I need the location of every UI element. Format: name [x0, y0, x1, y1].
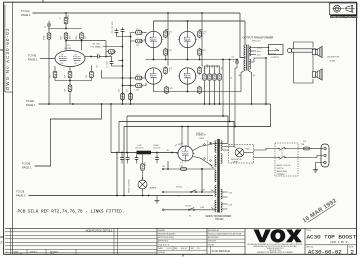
wire down to pot: [105, 41, 107, 57]
lamp LP2 pilot amber: [138, 180, 147, 189]
svg-text:DWG No AC30-60-02: DWG No AC30-60-02: [5, 27, 10, 90]
svg-text:AC30-60-02: AC30-60-02: [308, 248, 342, 255]
wire secondary to jack tip: [256, 47, 269, 49]
svg-text:TO EE: TO EE: [26, 99, 34, 103]
mains transformer right windings: [221, 141, 222, 151]
wire vertical A: [122, 34, 124, 105]
wire inlet earth to ground: [316, 163, 324, 167]
wire R3 to V1 anode: [65, 40, 67, 50]
svg-text:C7 .022: C7 .022: [107, 61, 109, 67]
terminal circles mains rows: [162, 168, 164, 170]
svg-text:CERAMIC: CERAMIC: [277, 173, 286, 176]
mains transformer left windings: [215, 141, 217, 153]
mains inlet connector: [321, 144, 329, 167]
svg-text:DRAWN: DRAWN: [158, 229, 166, 232]
valve V6 EL84: [178, 68, 197, 84]
resistor R22 bias: [218, 73, 222, 81]
svg-text:1W: 1W: [85, 36, 87, 39]
speaker LS1 Celestion: [312, 46, 322, 57]
speaker LS2 Celestion: [312, 69, 322, 80]
svg-text:PAGE 1: PAGE 1: [28, 57, 38, 61]
mains transformer T2 core: [217, 139, 220, 213]
resistor R19 bias: [203, 73, 207, 81]
svg-text:1K5: 1K5: [212, 65, 214, 68]
wire GZ34 heater feeds: [181, 127, 183, 148]
svg-text:TO GG: TO GG: [21, 9, 30, 13]
wire plate bus top pair: [154, 21, 246, 31]
svg-text:2: 2: [351, 249, 355, 256]
third angle projection box: [330, 3, 358, 15]
svg-text:SCALE N.T.S.: SCALE N.T.S.: [158, 243, 170, 246]
svg-text:THIRD ANGLE PROJECTION: THIRD ANGLE PROJECTION: [331, 15, 357, 18]
wire jack sleeve return to bus: [265, 58, 267, 104]
resistor R18 screen lower: [198, 66, 202, 74]
wire lower pair plates: [154, 84, 242, 91]
svg-text:VOL: VOL: [97, 65, 99, 68]
svg-text:5.5.92: 5.5.92: [167, 248, 172, 250]
selector arrowheads: [211, 167, 214, 209]
svg-text:1K5: 1K5: [136, 89, 139, 91]
svg-text:OUTPUT TRANSFORMER: OUTPUT TRANSFORMER: [243, 35, 274, 39]
resistor R9 on vertical A: [121, 92, 125, 100]
resistor R20 bias: [208, 73, 212, 81]
wire anode top link: [48, 29, 50, 32]
capacitor C32 electrolytic: [235, 59, 239, 65]
wire drop x223 to nested feed 1: [222, 60, 224, 117]
svg-text:AC30 TOP BOOST: AC30 TOP BOOST: [307, 233, 357, 240]
svg-text:DATE: DATE: [158, 247, 164, 250]
border tick bottom centre: [182, 254, 184, 256]
resistor R25 cathode lower: [165, 86, 169, 94]
border tick top: [42, 0, 44, 2]
mains toggle switch dashed box: [275, 143, 298, 176]
wire TO GG bus: [33, 12, 241, 14]
ground stub on heater wire: [156, 196, 158, 201]
wire y46 link: [103, 46, 123, 48]
valve V1 ECC83 preamp: [55, 51, 85, 67]
svg-text:TO CB: TO CB: [16, 189, 24, 193]
ground earth symbol: [313, 167, 318, 173]
wire F1 to switch row link: [201, 169, 203, 192]
resistor R24 cathode top b: [198, 48, 202, 56]
svg-text:G12M: G12M: [329, 60, 335, 62]
wire standby feed 1: [127, 116, 228, 144]
wire bus corner down right: [270, 104, 272, 127]
svg-text:CELESTION: CELESTION: [327, 57, 340, 59]
wire drop x235 to heater feed: [234, 68, 236, 127]
wire bias drops to bus: [204, 81, 206, 104]
svg-text:10-8-92: 10-8-92: [181, 248, 187, 250]
svg-text:MODIFICATION DETAILS: MODIFICATION DETAILS: [86, 229, 113, 232]
wire vertical B: [130, 41, 132, 104]
svg-text:1K5: 1K5: [136, 45, 139, 47]
title block outline: [5, 227, 357, 229]
svg-text:SWITCH: SWITCH: [277, 168, 285, 170]
title cell: [304, 228, 306, 254]
svg-text:820: 820: [65, 75, 67, 78]
wire standby feeds: [213, 143, 228, 145]
resistor R16 screen: [198, 30, 202, 38]
modification table verticals: [10, 228, 12, 254]
svg-text:6K8: 6K8: [222, 67, 224, 70]
wire neutral through box: [285, 157, 317, 159]
projection symbol circle: [334, 5, 341, 12]
svg-text:ECC83: ECC83: [65, 48, 73, 50]
resistor R21 bias: [213, 73, 217, 81]
svg-text:DESIGN RELEASED: DESIGN RELEASED: [158, 233, 176, 236]
wire OT primary top from plates: [244, 21, 246, 45]
svg-text:1W: 1W: [70, 36, 72, 39]
svg-text:705-002: 705-002: [215, 219, 224, 221]
svg-text:ISSUE 2: ISSUE 2: [30, 251, 37, 253]
wire V1 cathode drops: [54, 66, 56, 70]
svg-text:MAINS TRANSFORMER: MAINS TRANSFORMER: [206, 215, 232, 218]
potentiometer VR1 volume: [107, 50, 116, 54]
fuse F1: [181, 168, 187, 171]
valve V4 EL84: [178, 31, 197, 47]
svg-text:FL: FL: [189, 215, 191, 217]
svg-text:CH. VOL: CH. VOL: [92, 43, 101, 45]
resistor R4 100K: [80, 32, 84, 40]
wire drop x229 to nested feed 2: [229, 60, 231, 122]
wire feed1 drop to rail: [126, 116, 128, 153]
svg-text:16+16uF: 16+16uF: [153, 148, 161, 150]
svg-text:MAINS TOGGLE: MAINS TOGGLE: [277, 164, 291, 167]
svg-text:DRN: DRN: [14, 251, 19, 253]
third angle projection caption: [330, 15, 357, 18]
transformer T1 primary winding: [244, 45, 246, 57]
svg-text:C30/31: C30/31: [153, 145, 159, 147]
output jack J1: [269, 45, 284, 55]
wire cathode bus mid: [145, 59, 237, 61]
wire anode node: [48, 28, 82, 30]
svg-text:2: 2: [0, 241, 2, 245]
modification table rows: [5, 231, 157, 233]
svg-text:C32: C32: [231, 57, 234, 59]
resistor R5 cathode: [53, 70, 57, 78]
VOX logo cell: [244, 228, 246, 254]
border tick left: [0, 49, 4, 51]
svg-text:TITLE: TITLE: [306, 230, 312, 232]
resistor R11 grid top pair: [134, 31, 143, 35]
svg-text:C2: C2: [45, 26, 47, 28]
svg-text:LAMP: LAMP: [233, 161, 239, 164]
svg-text:470K: 470K: [44, 35, 46, 40]
switch linkage dashed: [281, 149, 283, 158]
wire C7 to vertical A: [112, 65, 123, 68]
switch contacts L pole: [278, 148, 279, 149]
resistor R8: [68, 84, 72, 92]
wire TO DB link: [35, 104, 102, 166]
svg-text:L-BN: L-BN: [201, 189, 206, 191]
wire screen drops: [167, 13, 169, 66]
wire neutral from transformer to box: [254, 157, 280, 159]
resistor R17 screen lower: [164, 66, 168, 74]
resistor R1 220K: [64, 16, 68, 24]
resistor R15 screen: [164, 30, 168, 38]
VOX logo: [254, 229, 302, 242]
svg-text:MAINS VOLTAGE: MAINS VOLTAGE: [128, 179, 131, 193]
valve V3 EL84: [144, 31, 163, 47]
design column: [206, 228, 208, 254]
svg-text:C16 .047 400V: C16 .047 400V: [112, 20, 114, 33]
svg-text:INDICATOR: INDICATOR: [231, 158, 242, 161]
resistor R27 pilot lamp feed: [142, 152, 144, 154]
capacitor C1: [47, 22, 51, 28]
DWG number side box: [4, 5, 6, 93]
svg-text:(A): (A): [239, 74, 242, 77]
indicator lamp dashed enclosure: [229, 145, 254, 164]
received date stamp: [302, 198, 338, 224]
wire transformer to lamp box: [223, 146, 236, 148]
wire switch to fuse F3: [285, 148, 304, 150]
lamp LP1 red indicator: [235, 148, 244, 157]
wire grid supply drop: [65, 13, 67, 29]
svg-text:APPROVED: APPROVED: [158, 240, 169, 243]
svg-text:PAGE 1: PAGE 1: [16, 193, 26, 197]
wire OT primary bottom from lower plates: [241, 70, 245, 92]
wire cathode join: [55, 79, 92, 81]
svg-text:45: 45: [230, 78, 232, 80]
wire bias top link: [205, 65, 220, 67]
wire bus drop x111: [110, 104, 112, 153]
svg-text:(AMER REF): (AMER REF): [277, 170, 288, 173]
svg-text:PAGE 1: PAGE 1: [26, 103, 36, 107]
approval column: [157, 227, 207, 229]
projection symbol cone: [346, 5, 353, 12]
transformer T1 secondary winding: [249, 46, 250, 56]
wire y78 feed: [102, 70, 135, 78]
transformer T1 core: [246, 45, 248, 71]
resistor R2 470K: [47, 32, 51, 40]
choke CH1: [137, 151, 152, 155]
svg-text:1K5: 1K5: [50, 75, 52, 78]
svg-text:TRN-xx13: TRN-xx13: [252, 41, 262, 43]
switch contacts N pole: [278, 157, 279, 158]
junction dots on HT bus: [48, 103, 50, 105]
svg-text:PAGE 1: PAGE 1: [22, 165, 32, 169]
wire 470K chain to bus: [48, 40, 50, 104]
capacitor C11 on vertical A: [121, 28, 125, 34]
speaker cabinet outline: [294, 42, 314, 49]
svg-text:DESIGNED BY: DESIGNED BY: [208, 230, 220, 232]
wire speaker series link: [312, 56, 314, 72]
svg-text:POL MASK.: POL MASK.: [91, 46, 103, 49]
resistor R3 100K: [64, 32, 68, 40]
wire TO EE main HT bus: [39, 103, 271, 105]
svg-text:REVISED: REVISED: [50, 251, 59, 253]
wire standby feed 2: [119, 122, 234, 147]
svg-text:L-BN: L-BN: [200, 207, 205, 209]
junction dots on GG bus: [65, 12, 67, 14]
wire heater drop x117: [116, 153, 118, 196]
svg-text:TE-2A: TE-2A: [176, 186, 182, 189]
wire R4 to V1 anode b: [81, 40, 83, 50]
svg-text:4ohm: 4ohm: [257, 55, 262, 57]
wire vol out to vertical A: [118, 60, 123, 62]
svg-text:SIZE A3: SIZE A3: [158, 251, 165, 254]
svg-text:APPROVED (ENG): APPROVED (ENG): [158, 236, 174, 239]
wire OT centre tap from GG bus: [240, 13, 245, 58]
svg-text:PCB SILK REF RT2,74,76,78 - LI: PCB SILK REF RT2,74,76,78 - LINKS FITTED…: [18, 210, 125, 215]
resistor R6 cathode: [68, 70, 72, 78]
svg-text:(B): (B): [253, 75, 256, 77]
svg-text:CHO-TK1: CHO-TK1: [135, 148, 145, 150]
svg-text:8ohm: 8ohm: [257, 51, 262, 53]
svg-text:TO FB: TO FB: [28, 53, 36, 57]
wire secondary heater taps: [222, 191, 228, 193]
svg-text:CHECKED: CHECKED: [208, 241, 217, 243]
speaker plug: [287, 48, 291, 52]
border tick left lower: [0, 236, 4, 238]
wire TO CB heater link: [29, 195, 214, 197]
svg-text:2/2: 2/2: [197, 248, 200, 250]
svg-text:TELEPHONE (0908) 375411: TELEPHONE (0908) 375411: [266, 248, 283, 250]
svg-text:TE-2A: TE-2A: [185, 204, 191, 207]
wire feed2 drop to rail: [118, 122, 120, 153]
valve V7 GZ34 rectifier: [177, 146, 195, 161]
left margin line: [12, 2, 14, 254]
wire heater feed long: [124, 126, 271, 128]
HT rail to rectifier: [111, 152, 178, 154]
resistor R7 cathode: [90, 70, 94, 78]
svg-text:STAND BY: STAND BY: [196, 134, 207, 137]
wire HT to F1 row: [167, 161, 169, 169]
wire secondary bottom to jack sleeve: [249, 58, 266, 62]
svg-text:ISSUED: ISSUED: [208, 244, 215, 246]
svg-text:RED: RED: [246, 148, 251, 150]
svg-text:TO DB: TO DB: [22, 161, 30, 165]
issue cell: [347, 245, 349, 255]
svg-text:OUTPUT: OUTPUT: [271, 57, 280, 59]
resistor R23 cathode top: [164, 48, 168, 56]
switch SW2 mains: [190, 190, 197, 193]
resistor R12 grid top pair b: [134, 39, 143, 43]
wire TO FB to V1 grid: [40, 58, 55, 60]
wire heater drop x124: [123, 127, 125, 196]
svg-text:AMBER: AMBER: [150, 187, 157, 190]
valve V5 EL84: [144, 68, 163, 84]
svg-text:(SHT 2 OF 2): (SHT 2 OF 2): [330, 240, 349, 244]
svg-text:1K5: 1K5: [86, 75, 88, 78]
resistor R26 cathode lower b: [198, 86, 202, 94]
wire y85 feed: [123, 85, 135, 87]
resistor R13 grid lower pair: [134, 76, 143, 80]
svg-text:AC30 REISSUE: AC30 REISSUE: [212, 249, 231, 253]
resistor R10 on vertical B: [129, 92, 133, 100]
switch SW3: [188, 208, 195, 211]
svg-text:PAGE 1: PAGE 1: [21, 13, 31, 17]
wire lamp to mains switch box: [244, 152, 254, 154]
svg-text:1K5: 1K5: [136, 29, 139, 31]
resistor R14 grid lower pair b: [134, 84, 143, 88]
wire OT secondary taps: [249, 47, 256, 49]
wire grid feed split: [115, 29, 119, 35]
fuse F3: [304, 147, 310, 150]
svg-text:1K5: 1K5: [217, 65, 219, 68]
svg-text:1K5: 1K5: [136, 74, 139, 76]
wire anode row y40: [66, 40, 106, 42]
